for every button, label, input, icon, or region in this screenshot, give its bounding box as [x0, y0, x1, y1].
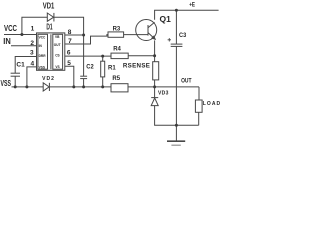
- svg-text:OUT: OUT: [181, 78, 191, 85]
- svg-text:LOAD: LOAD: [203, 101, 221, 107]
- svg-text:R3: R3: [113, 27, 121, 33]
- svg-text:VSS: VSS: [39, 66, 45, 70]
- svg-text:VD1: VD1: [43, 1, 55, 11]
- svg-text:VCC: VCC: [39, 35, 46, 39]
- svg-text:R5: R5: [112, 76, 120, 82]
- svg-text:Q1: Q1: [160, 14, 172, 24]
- svg-text:6: 6: [67, 50, 71, 57]
- svg-text:OUT: OUT: [54, 43, 61, 47]
- svg-text:C2: C2: [86, 63, 94, 70]
- svg-text:VB: VB: [55, 35, 60, 39]
- svg-text:R4: R4: [113, 46, 121, 52]
- svg-text:VSS: VSS: [1, 78, 12, 88]
- svg-text:DRR: DRR: [39, 54, 47, 58]
- svg-text:IN: IN: [3, 36, 11, 46]
- svg-text:+E: +E: [189, 1, 195, 8]
- svg-text:8: 8: [68, 29, 72, 36]
- svg-text:CS: CS: [55, 54, 59, 58]
- svg-text:7: 7: [68, 38, 72, 45]
- svg-text:1: 1: [31, 25, 35, 32]
- svg-text:VD2: VD2: [42, 76, 54, 82]
- svg-text:3: 3: [30, 50, 34, 57]
- svg-text:VS: VS: [55, 65, 59, 69]
- svg-text:RSENSE: RSENSE: [123, 63, 150, 70]
- svg-text:5: 5: [67, 60, 71, 67]
- svg-text:4: 4: [31, 60, 35, 67]
- svg-text:C3: C3: [179, 32, 186, 39]
- svg-text:C1: C1: [16, 61, 25, 68]
- svg-text:D1: D1: [46, 22, 52, 32]
- svg-text:2: 2: [30, 40, 34, 47]
- svg-text:IN: IN: [39, 44, 43, 48]
- svg-text:R1: R1: [108, 66, 116, 72]
- svg-text:VCC: VCC: [4, 23, 17, 33]
- svg-text:VD3: VD3: [158, 90, 169, 96]
